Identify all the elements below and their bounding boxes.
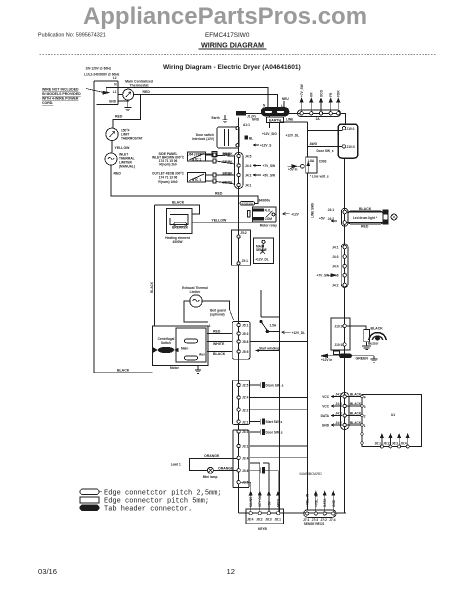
left long vertical wire (L2) — [94, 81, 153, 373]
svg-text:BLACK: BLACK — [350, 412, 362, 416]
svg-text:+7V_SW: +7V_SW — [300, 84, 304, 97]
svg-text:BLACK: BLACK — [213, 352, 226, 356]
yellow wire heater to relay — [192, 221, 276, 223]
buzzer — [346, 326, 366, 330]
svg-text:BR/BK: BR/BK — [223, 180, 234, 184]
start relay inner box — [253, 238, 273, 264]
svg-text:3: 3 — [364, 405, 366, 409]
svg-text:MOSI: MOSI — [277, 499, 281, 507]
svg-text:BLACK: BLACK — [350, 393, 362, 397]
svg-text:LINE SMS: LINE SMS — [311, 203, 315, 218]
svg-text:C903: C903 — [319, 159, 327, 163]
svg-text:J3:3: J3:3 — [242, 430, 249, 434]
svg-text:DCO: DCO — [319, 89, 323, 97]
svg-text:+5V_SW: +5V_SW — [263, 174, 276, 178]
svg-text:BLACK: BLACK — [350, 421, 362, 425]
svg-text:J10:3: J10:3 — [334, 324, 342, 328]
svg-text:J4:1: J4:1 — [245, 184, 252, 188]
svg-text:NTC 1: NTC 1 — [192, 157, 201, 161]
svg-text:VCC: VCC — [322, 395, 329, 399]
svg-text:R(nom) 10k0: R(nom) 10k0 — [158, 180, 177, 184]
J5 edge strip (motor) — [232, 322, 250, 360]
svg-text:J2:1: J2:1 — [242, 421, 249, 425]
svg-text:YELLOW: YELLOW — [115, 146, 131, 150]
svg-text:BLACK: BLACK — [117, 369, 130, 373]
svg-text:J64B: J64B — [222, 153, 230, 157]
svg-text:SENSE: SENSE — [256, 248, 267, 252]
PTC start box — [231, 230, 250, 265]
svg-text:Edge connector pitch 5mm;: Edge connector pitch 5mm; — [104, 498, 209, 506]
wire L1 to thermostat — [118, 93, 123, 95]
svg-text:AppliancePartsPros.com: AppliancePartsPros.com — [83, 3, 367, 30]
motor wires to connector — [207, 333, 232, 335]
svg-text:FDR: FDR — [337, 90, 341, 97]
mainboard bottom edge — [239, 512, 346, 514]
svg-text:LINE: LINE — [286, 118, 293, 122]
NTC1 edge pins — [206, 154, 213, 156]
svg-text:Buzzer: Buzzer — [368, 342, 379, 346]
svg-text:J5:2: J5:2 — [240, 231, 247, 235]
SENSE pill connector — [304, 510, 336, 518]
svg-text:N.O.: N.O. — [265, 209, 272, 213]
svg-text:4: 4 — [364, 395, 366, 399]
svg-text:J3:6: J3:6 — [242, 469, 249, 473]
svg-text:J3:1: J3:1 — [242, 445, 249, 449]
svg-text:J8:1: J8:1 — [275, 517, 282, 521]
ground drop from bus — [118, 101, 128, 107]
svg-text:GREEN: GREEN — [356, 356, 369, 360]
svg-text:BR/BK: BR/BK — [223, 171, 234, 175]
svg-text:J5:3: J5:3 — [242, 332, 249, 336]
svg-text:J4:2: J4:2 — [245, 174, 252, 178]
J10 rounded box (door sw target) — [338, 124, 357, 158]
svg-text:VCC: VCC — [322, 405, 329, 409]
wires bus to J10 box — [308, 130, 343, 132]
wires J3 to buses — [250, 445, 308, 447]
N stub to bonding terminal — [105, 87, 107, 91]
svg-text:J3:4: J3:4 — [242, 456, 249, 460]
svg-text:COM: COM — [265, 217, 273, 221]
svg-text:J4:2: J4:2 — [332, 284, 339, 288]
svg-text:U1: U1 — [391, 413, 395, 417]
svg-text:KEY OUT: KEY OUT — [258, 493, 262, 507]
NTC2 edge pins — [206, 174, 213, 176]
svg-text:+12V_DL: +12V_DL — [292, 331, 306, 335]
svg-text:J4:5: J4:5 — [245, 155, 252, 159]
svg-text:KEYB: KEYB — [258, 527, 268, 531]
svg-text:Lead 1: Lead 1 — [171, 463, 181, 467]
svg-text:+12V_SIG: +12V_SIG — [262, 132, 277, 136]
svg-text:L1: L1 — [113, 90, 117, 94]
svg-text:L2: L2 — [113, 76, 117, 80]
svg-text:* Line volt_s: * Line volt_s — [310, 174, 329, 178]
NTC2 text block — [152, 172, 185, 184]
note pointer line — [86, 89, 103, 93]
GND wire left — [97, 104, 118, 106]
KEYB riser wires + labels — [240, 463, 278, 512]
svg-text:J64 (3/8): J64 (3/8) — [188, 153, 201, 157]
svg-text:A1:1: A1:1 — [243, 123, 250, 127]
wire inlet limiter down and right — [111, 165, 258, 203]
svg-text:BLACK: BLACK — [150, 281, 154, 293]
limit thermostat circle — [106, 128, 118, 140]
wires J2 to buses — [250, 397, 308, 399]
svg-text:MAINBOARD: MAINBOARD — [300, 472, 323, 476]
fuse / relay contact 1.5A — [260, 290, 262, 317]
tab header connector (mains) — [262, 108, 289, 116]
svg-text:J4:2: J4:2 — [335, 421, 342, 425]
svg-text:RED: RED — [213, 330, 221, 334]
svg-text:J4:3: J4:3 — [335, 412, 342, 416]
svg-text:KR: KR — [310, 92, 314, 97]
svg-text:CORD.: CORD. — [42, 101, 53, 105]
motor relay — [253, 207, 276, 222]
svg-text:+12V_S: +12V_S — [260, 144, 271, 148]
+7V_SW / +5V_SW arrows — [253, 164, 261, 166]
svg-text:J6:3: J6:3 — [392, 442, 399, 446]
junction pill row — [289, 112, 345, 114]
svg-text:GND: GND — [322, 424, 330, 428]
line volt box — [306, 157, 317, 173]
svg-text:NTC 1: NTC 1 — [192, 178, 201, 182]
buzzer J10 box — [331, 318, 350, 350]
wire YELLOW between circles — [111, 141, 113, 154]
svg-text:Door SW_s: Door SW_s — [266, 430, 283, 434]
svg-text:+12V: +12V — [291, 212, 299, 216]
thermostat TH1 circle — [123, 89, 134, 100]
svg-text:EFMC417SIW0: EFMC417SIW0 — [205, 32, 250, 39]
arrows up from junction row — [302, 101, 339, 112]
svg-text:J5:1: J5:1 — [242, 324, 249, 328]
svg-text:1.5A: 1.5A — [270, 324, 277, 328]
+12V in arrow — [322, 355, 340, 357]
svg-text:+12V in: +12V in — [321, 358, 332, 362]
svg-text:+7V_SW: +7V_SW — [263, 164, 276, 168]
svg-text:J5:8: J5:8 — [242, 340, 249, 344]
NTC1 box — [187, 152, 205, 161]
KEYB connector box — [246, 509, 284, 524]
svg-text:2A: 2A — [316, 117, 321, 121]
svg-text:BLACK: BLACK — [359, 207, 372, 211]
svg-text:Edge connetctor pitch 2,5mm;: Edge connetctor pitch 2,5mm; — [104, 490, 222, 498]
wire NEU top run — [106, 87, 268, 108]
svg-text:WITH 4-WIRE POWER: WITH 4-WIRE POWER — [42, 97, 79, 101]
motor blob — [159, 347, 174, 353]
svg-text:GND: GND — [332, 499, 336, 507]
rotated wire labels above arrows — [300, 84, 341, 97]
NTC2 box — [187, 172, 205, 182]
BL mark — [245, 136, 248, 139]
right long vertical wire — [344, 158, 346, 513]
svg-text:+12V_DL: +12V_DL — [255, 257, 269, 261]
centrifugal switch / motor box — [153, 326, 209, 366]
svg-text:J10:1: J10:1 — [347, 127, 355, 131]
svg-text:ORANGE: ORANGE — [218, 467, 234, 471]
svg-text:+5V: +5V — [267, 500, 271, 507]
svg-text:J4:2: J4:2 — [328, 217, 335, 221]
wire RED right of thermostat — [134, 95, 278, 108]
svg-text:Door SW_s: Door SW_s — [317, 149, 334, 153]
svg-text:Earth: Earth — [212, 116, 220, 120]
legend — [80, 489, 102, 511]
switch sensors on J2 pins — [250, 382, 265, 473]
left bus vertical J column — [238, 118, 240, 514]
+12V S arrow — [253, 144, 259, 146]
svg-text:2: 2 — [364, 414, 366, 418]
svg-text:J4:3: J4:3 — [332, 255, 339, 259]
svg-text:Main: Main — [181, 347, 188, 351]
door switch interlock box — [217, 127, 239, 148]
wires NTC to J4 strip — [216, 155, 234, 158]
EARTH wire down — [269, 116, 271, 129]
svg-text:BLACK: BLACK — [172, 201, 185, 205]
svg-text:1/N 120V @ 60Hz: 1/N 120V @ 60Hz — [86, 66, 112, 70]
svg-text:Switch: Switch — [161, 341, 171, 345]
svg-text:J4:1: J4:1 — [332, 246, 339, 250]
inner contact box — [176, 328, 206, 362]
svg-text:+5V In: +5V In — [288, 168, 298, 172]
EARTH box — [267, 117, 284, 122]
svg-text:(optional): (optional) — [210, 312, 225, 316]
svg-text:N: N — [114, 83, 117, 87]
svg-text:J4:1: J4:1 — [328, 208, 335, 212]
SENSE riser wires + labels — [316, 494, 334, 512]
svg-text:YELLOW: YELLOW — [211, 219, 227, 223]
motor ground — [197, 366, 199, 371]
main bus verticals — [279, 122, 281, 513]
svg-text:BLACK: BLACK — [350, 402, 362, 406]
svg-text:+5V: +5V — [319, 217, 326, 221]
svg-text:Tab header connector.: Tab header connector. — [104, 506, 192, 514]
tab header black pill under box — [340, 354, 352, 358]
svg-text:Interlock (12V): Interlock (12V) — [192, 137, 214, 141]
J64B small connector — [212, 152, 217, 157]
exhaust thermal limiter — [182, 286, 208, 294]
svg-text:BLACK: BLACK — [371, 327, 384, 331]
svg-text:Start winding: Start winding — [259, 347, 279, 351]
J4 edge strip (left) — [235, 153, 244, 189]
svg-text:J5:1: J5:1 — [242, 259, 249, 263]
main centralized thermostat label — [125, 80, 153, 88]
svg-text:IN MODELS PROVIDED: IN MODELS PROVIDED — [42, 92, 81, 96]
J4 right strip — [341, 244, 348, 288]
svg-text:J5:5: J5:5 — [242, 350, 249, 354]
ground at thermostat — [127, 100, 129, 102]
svg-text:+12V_DL: +12V_DL — [286, 134, 300, 138]
svg-text:(MANUAL): (MANUAL) — [119, 165, 135, 169]
power terminal bus — [117, 81, 119, 105]
svg-text:Led drum light *: Led drum light * — [353, 216, 378, 220]
svg-text:ORANGE: ORANGE — [204, 454, 220, 458]
svg-text:J2:2: J2:2 — [242, 409, 249, 413]
svg-text:AWG: AWG — [310, 142, 318, 146]
svg-text:SENSE RECS: SENSE RECS — [304, 522, 325, 526]
svg-text:BREAKER: BREAKER — [172, 226, 188, 230]
svg-text:84/600v: 84/600v — [259, 199, 271, 203]
svg-text:+7V_SW: +7V_SW — [317, 274, 330, 278]
svg-text:FR: FR — [329, 92, 333, 97]
svg-text:J4:4: J4:4 — [332, 265, 339, 269]
svg-text:J4:1: J4:1 — [335, 393, 342, 397]
svg-text:1: 1 — [364, 424, 366, 428]
svg-text:J10:1: J10:1 — [334, 343, 342, 347]
svg-text:RED: RED — [361, 225, 369, 229]
svg-text:J2:5: J2:5 — [242, 384, 249, 388]
J2 edge strip — [233, 380, 250, 424]
NTC1 text block — [152, 152, 185, 167]
svg-text:+VDL_IN: +VDL_IN — [306, 493, 310, 507]
perforation dashed line — [40, 54, 437, 56]
resistor on red line — [240, 202, 255, 206]
U1 bottom pins with arrows — [380, 436, 409, 448]
svg-text:Wiring Diagram - Electric Drye: Wiring Diagram - Electric Dryer (A046416… — [163, 64, 301, 71]
svg-text:GND: GND — [109, 99, 117, 103]
svg-text:J8:4: J8:4 — [247, 517, 254, 521]
svg-text:J1 (P): J1 (P) — [247, 115, 256, 119]
heating element box — [167, 209, 193, 234]
svg-text:RED: RED — [215, 191, 223, 195]
svg-text:Publication No: 5995674321: Publication No: 5995674321 — [38, 33, 106, 39]
svg-text:WIRING DIAGRAM: WIRING DIAGRAM — [201, 40, 264, 49]
svg-text:12: 12 — [227, 567, 235, 576]
svg-text:WHITE: WHITE — [213, 342, 225, 346]
svg-text:MAINS IN: MAINS IN — [249, 492, 253, 507]
svg-text:R(nom) 2k0: R(nom) 2k0 — [159, 163, 177, 167]
svg-text:WIRE NOT INCLUDED: WIRE NOT INCLUDED — [42, 88, 79, 92]
svg-text:BL: BL — [249, 137, 253, 141]
start winding arrow — [256, 349, 280, 352]
svg-text:Motor: Motor — [170, 366, 180, 370]
svg-text:Thermostat: Thermostat — [129, 84, 149, 88]
svg-text:J7:4: J7:4 — [329, 518, 336, 522]
svg-text:J10:3: J10:3 — [347, 145, 355, 149]
inlet thermal limiter circle — [105, 153, 117, 165]
svg-text:J3:5: J3:5 — [242, 481, 249, 485]
svg-text:NEU: NEU — [282, 97, 289, 101]
svg-text:Aux: Aux — [199, 353, 205, 357]
U1 box — [362, 395, 422, 447]
+12V arrow at relay — [282, 213, 289, 216]
led drum light circuit — [341, 208, 348, 226]
svg-text:J6:2: J6:2 — [383, 442, 390, 446]
J3 edge strip — [233, 430, 249, 488]
svg-text:RED: RED — [115, 115, 123, 119]
J1 (P) tab — [239, 112, 262, 114]
svg-text:RED: RED — [143, 90, 151, 94]
svg-text:BR/BK: BR/BK — [223, 160, 234, 164]
svg-text:RED: RED — [114, 172, 122, 176]
L2 wire to left drop — [94, 80, 118, 82]
svg-text:Mini lamp: Mini lamp — [203, 475, 218, 479]
svg-text:470R/5W: 470R/5W — [242, 202, 254, 206]
svg-text:+VSL_IN: +VSL_IN — [314, 493, 318, 507]
svg-text:4: 4 — [209, 324, 211, 328]
svg-text:J6:1: J6:1 — [375, 442, 382, 446]
svg-text:J8:2: J8:2 — [256, 517, 263, 521]
svg-text:DATA: DATA — [323, 498, 327, 507]
svg-text:DATA: DATA — [321, 414, 330, 418]
svg-text:Start SW_s: Start SW_s — [266, 420, 283, 424]
svg-text:N: N — [263, 104, 266, 108]
svg-text:J8:3: J8:3 — [265, 517, 272, 521]
svg-text:J2:4: J2:4 — [242, 396, 249, 400]
small J10 label box — [334, 351, 340, 354]
svg-text:J6:4: J6:4 — [400, 442, 407, 446]
svg-text:Drum SW_s: Drum SW_s — [266, 383, 284, 387]
svg-text:J4:3: J4:3 — [245, 164, 252, 168]
green ground — [352, 355, 375, 357]
svg-text:Limiter: Limiter — [190, 290, 201, 294]
svg-text:J4:5: J4:5 — [335, 402, 342, 406]
note: wire not included — [42, 88, 81, 106]
svg-text:Motor relay: Motor relay — [260, 224, 277, 228]
terminal blob — [103, 92, 110, 95]
svg-text:03/16: 03/16 — [38, 567, 57, 576]
U1 block wires — [341, 393, 350, 430]
svg-text:4500W: 4500W — [172, 240, 182, 244]
svg-text:THERMOSTAT: THERMOSTAT — [121, 137, 143, 141]
